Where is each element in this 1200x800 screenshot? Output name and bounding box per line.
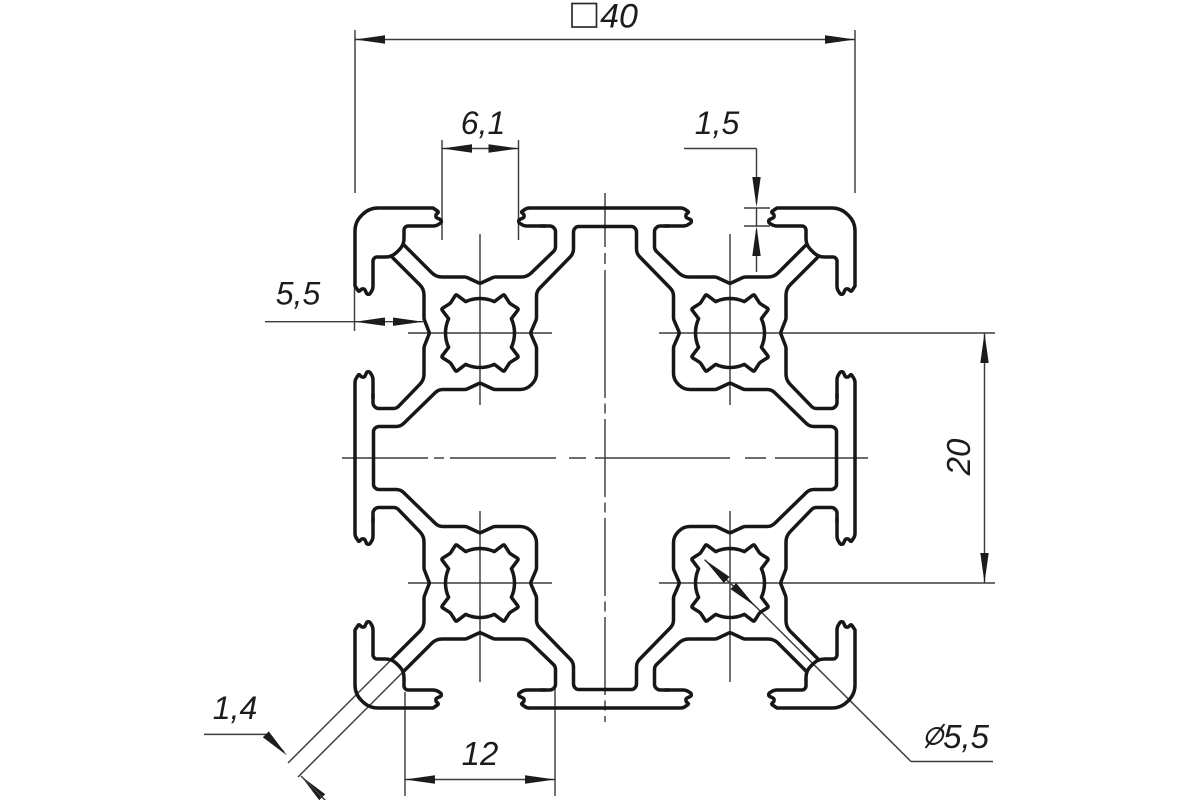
svg-text:6,1: 6,1	[461, 105, 505, 141]
svg-text:12: 12	[462, 735, 499, 772]
svg-text:5,5: 5,5	[276, 276, 321, 312]
svg-text:1,4: 1,4	[213, 690, 257, 726]
svg-text:20: 20	[940, 438, 977, 476]
svg-text:40: 40	[600, 0, 638, 36]
svg-text:1,5: 1,5	[695, 105, 740, 141]
svg-text:5,5: 5,5	[943, 718, 990, 755]
